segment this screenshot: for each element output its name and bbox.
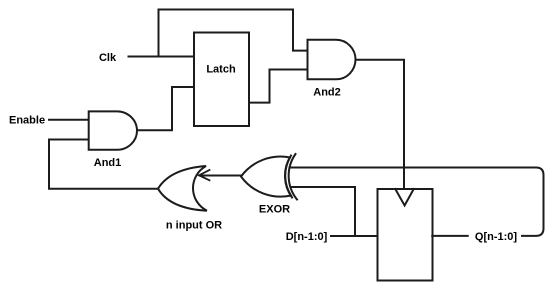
- register box: [378, 189, 433, 281]
- svg-text:Enable: Enable: [9, 114, 45, 126]
- wire Clk input to Latch: [129, 56, 195, 58]
- and-gate And2: [308, 40, 356, 80]
- wire Clk branch up and over to And2 top input: [159, 10, 308, 57]
- svg-text:Clk: Clk: [99, 52, 117, 64]
- svg-text:EXOR: EXOR: [259, 203, 290, 215]
- wire n-input-OR output to And1 bottom input: [49, 140, 158, 189]
- svg-text:Latch: Latch: [206, 63, 236, 75]
- wire EXOR bottom input branch to D bus: [291, 187, 356, 235]
- or-gate n input OR (left-pointing): [158, 166, 207, 211]
- xor-gate EXOR inner input arc: [285, 156, 292, 198]
- xor-gate EXOR body (left-pointing): [241, 157, 291, 197]
- svg-text:And1: And1: [94, 157, 122, 169]
- wire And1 output up to Latch lower input: [136, 87, 194, 130]
- svg-text:D[n-1:0]: D[n-1:0]: [286, 231, 328, 243]
- wire EXOR output to OR gate input: [200, 175, 241, 177]
- xor-gate EXOR outer input arc: [289, 154, 297, 200]
- wire Latch output to And2 bottom input: [249, 70, 308, 103]
- wire feedback Q around right side to EXOR top input: [290, 168, 544, 236]
- svg-text:n input OR: n input OR: [166, 219, 222, 231]
- svg-text:Q[n-1:0]: Q[n-1:0]: [475, 231, 518, 243]
- register clock notch: [395, 189, 413, 206]
- wire D input to register: [331, 235, 378, 237]
- arrowhead on EXOR to OR wire: [199, 170, 210, 180]
- svg-text:And2: And2: [313, 87, 341, 99]
- and-gate And1: [89, 111, 137, 149]
- latch box: [194, 33, 249, 127]
- wire register Q output to label: [432, 235, 468, 237]
- wire And2 output down to register clock: [355, 60, 404, 188]
- wire Enable input to And1 top input: [49, 119, 89, 121]
